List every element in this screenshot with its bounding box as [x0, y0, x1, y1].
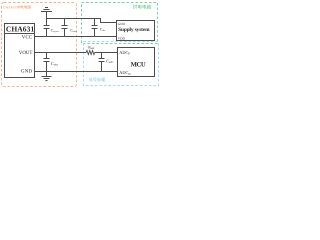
capacitor C_adc [99, 53, 105, 72]
svg-text:Supply system: Supply system [118, 27, 150, 33]
svg-text:VCC: VCC [22, 34, 33, 40]
svg-text:VOUT: VOUT [19, 50, 33, 56]
ground (top, pointing up) [41, 8, 52, 19]
wire: VOUT from CHA631 to resistor [35, 52, 87, 54]
svg-text:ADCP: ADCP [119, 50, 130, 56]
svg-text:CHA631: CHA631 [6, 25, 35, 34]
svg-text:Cadc: Cadc [106, 58, 113, 64]
wire: VCC bus from CHA631 VCC to Supply system VDD [35, 36, 117, 38]
capacitor C_dec [92, 19, 98, 37]
IC U1 title separator [5, 33, 35, 35]
svg-text:Cout: Cout [51, 61, 58, 67]
svg-text:GND: GND [118, 22, 126, 26]
svg-text:ADCN: ADCN [119, 70, 131, 76]
svg-text:Radc: Radc [88, 45, 95, 49]
wire: GND top bus from ground to Supply system GND [47, 19, 117, 23]
svg-text:信号处理: 信号处理 [89, 77, 105, 82]
svg-text:VDD: VDD [118, 36, 126, 40]
svg-text:MCU: MCU [131, 61, 146, 68]
dashed region box: supply circuit (green) [82, 3, 158, 44]
dashed region box: signal processing (blue) [84, 42, 159, 86]
wire: resistor to MCU ADC_P [95, 52, 118, 54]
capacitor C_out [44, 53, 50, 72]
svg-text:CHA631供电电路: CHA631供电电路 [3, 5, 31, 10]
capacitor C_filter [62, 19, 68, 37]
dashed region box: CHA631 supply circuit (orange) [2, 3, 77, 87]
svg-text:GND: GND [21, 69, 32, 75]
block Supply system [117, 21, 155, 41]
IC U1 CHA631 body [5, 24, 35, 78]
capacitor C_bypass [44, 19, 50, 37]
ground (bottom) [42, 72, 52, 81]
wire: GND from CHA631 to MCU ADC_N [35, 71, 118, 73]
resistor R_adc [86, 51, 95, 55]
block MCU [118, 48, 155, 77]
svg-text:供电电路: 供电电路 [133, 4, 152, 9]
